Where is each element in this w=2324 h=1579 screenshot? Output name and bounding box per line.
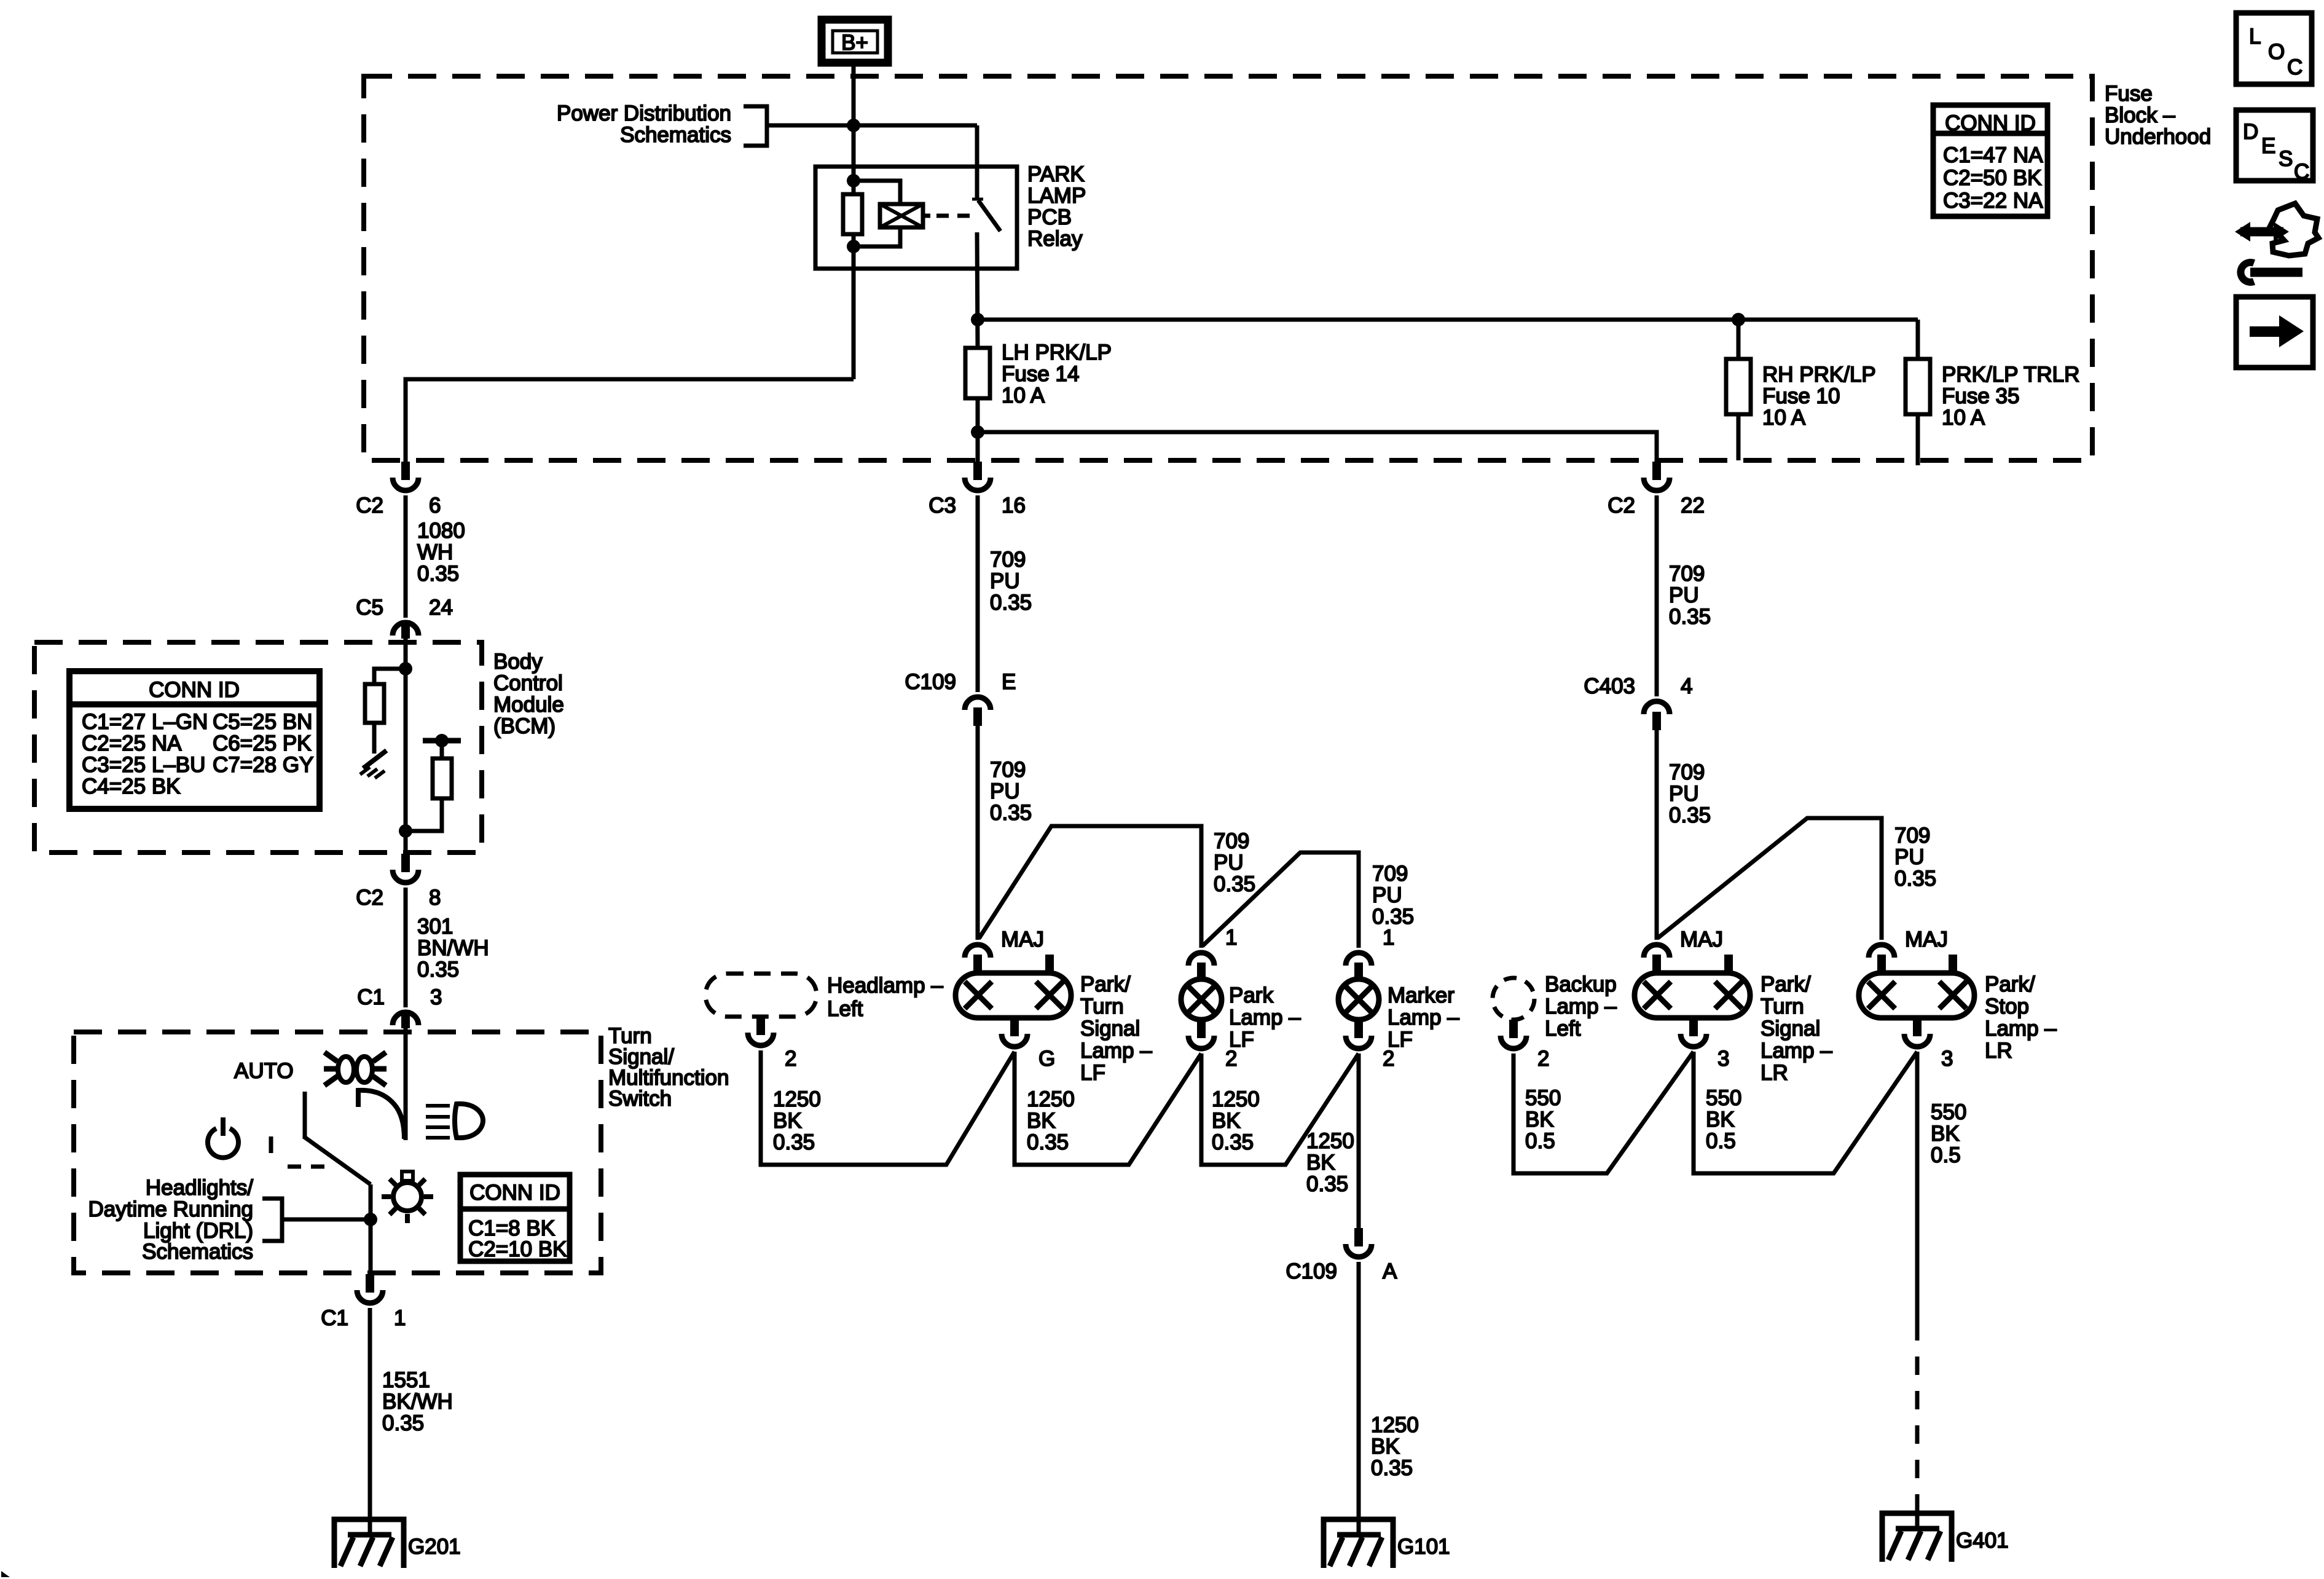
Headlamp Left (reference, dashed)	[705, 974, 817, 1017]
svg-text:0.35: 0.35	[1669, 605, 1711, 629]
node: BCM pullup tap	[399, 662, 412, 675]
svg-text:PU: PU	[990, 779, 1020, 803]
label: circuit 709 PU 0.35 (b)	[990, 758, 1032, 825]
svg-text:0.5: 0.5	[1931, 1143, 1961, 1167]
svg-text:CONN ID: CONN ID	[149, 678, 240, 702]
svg-text:Turn: Turn	[1761, 994, 1804, 1018]
connector MAJ (park/turn signal lamp LR)	[1644, 927, 1723, 973]
label: circuit 1250 BK 0.35 (e)	[1371, 1413, 1419, 1480]
resistor (BCM internal 2)	[433, 758, 452, 798]
svg-text:Fuse 10: Fuse 10	[1762, 384, 1840, 408]
wire: headlamp ground run	[761, 1050, 1015, 1165]
wire: TRLR fuse drop	[1916, 320, 1920, 359]
DESC legend box	[2236, 110, 2313, 184]
svg-text:709: 709	[1214, 829, 1249, 853]
svg-text:Switch: Switch	[608, 1087, 672, 1111]
Fuse Block - Underhood label	[2105, 82, 2211, 149]
svg-text:PU: PU	[1372, 883, 1402, 907]
svg-text:BK/WH: BK/WH	[382, 1390, 453, 1414]
ground G101	[1324, 1519, 1393, 1568]
label: circuit 1250 BK 0.35 (c)	[1212, 1087, 1260, 1154]
svg-text:CONN ID: CONN ID	[469, 1181, 560, 1205]
CONN ID table (BCM)	[69, 671, 320, 809]
svg-text:PU: PU	[1669, 583, 1699, 607]
svg-text:C6=25 PK: C6=25 PK	[213, 731, 312, 755]
park/turn signal lamp LR bulb	[1635, 955, 1750, 1018]
svg-text:WH: WH	[417, 540, 453, 564]
svg-text:C109: C109	[1286, 1259, 1337, 1283]
wire: coil branch top	[854, 181, 900, 204]
svg-text:C5: C5	[356, 596, 383, 620]
B+ battery feed box	[822, 20, 888, 63]
wire: branch to park/stop lamp LR	[1658, 818, 1882, 940]
Backup Lamp Left (reference, dashed)	[1493, 978, 1534, 1020]
switch linkage dashes	[288, 1165, 331, 1169]
service icon (arrows and wrench)	[2235, 203, 2318, 282]
wire: park/turn LR ground run	[1694, 1052, 1917, 1173]
svg-text:2: 2	[1383, 1047, 1394, 1071]
svg-text:Fuse: Fuse	[2105, 82, 2153, 106]
svg-text:L: L	[2249, 25, 2261, 49]
svg-text:MAJ: MAJ	[1680, 927, 1723, 951]
svg-text:1250: 1250	[1306, 1129, 1354, 1153]
svg-text:C3=25 L–BU: C3=25 L–BU	[82, 753, 205, 777]
svg-text:1: 1	[1225, 926, 1237, 950]
park/turn signal lamp LF label	[1080, 972, 1152, 1085]
connector: park lamp LF pin 2	[1188, 1020, 1237, 1071]
label: circuit 550 BK 0.5 (c)	[1931, 1100, 1966, 1167]
wire: C1-1 to G201	[368, 1308, 372, 1535]
connector C403 pin 4	[1584, 674, 1692, 730]
svg-text:PCB: PCB	[1027, 205, 1072, 229]
connector C109 pin E	[905, 670, 1016, 726]
svg-text:550: 550	[1525, 1086, 1561, 1110]
headlamp icon	[426, 1104, 483, 1138]
svg-text:10 A: 10 A	[1002, 384, 1045, 408]
svg-text:C3: C3	[928, 494, 956, 518]
svg-text:1250: 1250	[1212, 1087, 1260, 1111]
park lamp icon	[324, 1052, 387, 1085]
relay switch blade	[978, 200, 1000, 231]
wire: blade to C1-1	[369, 1184, 373, 1274]
svg-text:24: 24	[429, 596, 453, 620]
svg-text:0.35: 0.35	[1894, 867, 1936, 891]
svg-text:Relay: Relay	[1027, 227, 1083, 251]
svg-text:C7=28 GY: C7=28 GY	[213, 753, 313, 777]
svg-text:Daytime Running: Daytime Running	[88, 1197, 253, 1221]
svg-text:PARK: PARK	[1027, 162, 1085, 186]
wire: C2-22 to C403-4	[1655, 495, 1659, 696]
node: BCM sense tap	[399, 824, 412, 838]
svg-text:709: 709	[1372, 862, 1408, 886]
svg-text:Marker: Marker	[1388, 983, 1454, 1007]
svg-text:0.35: 0.35	[1306, 1172, 1348, 1196]
wire: fuse35 bottom	[1916, 414, 1920, 465]
node: BCM voltage rail	[423, 734, 461, 747]
svg-text:3: 3	[1941, 1047, 1953, 1071]
wire: branch to BCM resistor 1	[374, 669, 406, 684]
svg-text:Schematics: Schematics	[620, 123, 731, 147]
svg-text:PU: PU	[990, 569, 1020, 593]
svg-text:22: 22	[1681, 494, 1705, 518]
svg-text:Lamp –: Lamp –	[1545, 994, 1617, 1018]
Power Distribution Schematics label	[557, 101, 731, 147]
svg-text:709: 709	[990, 548, 1026, 572]
node: RH fuse junction	[1732, 313, 1745, 326]
label: circuit 709 PU 0.35 (g)	[1894, 824, 1936, 891]
wire: C109-E to park/turn lamp LF	[976, 726, 980, 940]
connector C5 pin 24 (BCM)	[356, 596, 453, 639]
svg-text:C1: C1	[357, 985, 385, 1009]
wire: C109-A to G101	[1357, 1262, 1361, 1535]
svg-text:Park: Park	[1229, 983, 1273, 1007]
svg-text:G: G	[1038, 1047, 1055, 1071]
svg-text:C109: C109	[905, 670, 956, 694]
svg-text:0.35: 0.35	[1212, 1130, 1254, 1154]
svg-text:C2=25 NA: C2=25 NA	[82, 731, 182, 755]
label: circuit 1250 BK 0.35 (d)	[1306, 1129, 1354, 1196]
svg-text:BN/WH: BN/WH	[417, 936, 489, 960]
svg-text:Block –: Block –	[2105, 103, 2175, 127]
svg-text:3: 3	[430, 985, 442, 1009]
label: circuit 301 BN/WH 0.35	[417, 915, 489, 982]
connector: backup lamp pin 2	[1501, 1020, 1549, 1071]
svg-text:709: 709	[990, 758, 1026, 782]
svg-text:1: 1	[394, 1306, 406, 1330]
connector C2 pin 6 (fuse block to BCM harness)	[356, 462, 441, 518]
svg-text:Lamp –: Lamp –	[1080, 1039, 1152, 1063]
relay switch contact tick	[972, 198, 983, 201]
svg-text:Lamp –: Lamp –	[1229, 1006, 1301, 1030]
svg-text:C3=22 NA: C3=22 NA	[1943, 189, 2043, 213]
svg-text:Control: Control	[493, 671, 563, 695]
wire: fuse14 output bus to C2-22	[978, 432, 1657, 462]
svg-text:0.35: 0.35	[417, 562, 459, 586]
svg-text:10 A: 10 A	[1762, 406, 1806, 430]
next page arrow box	[2236, 297, 2313, 368]
connector: park lamp LF pin 1	[1188, 926, 1237, 981]
connector: park/turn LR pin 3	[1681, 1018, 1729, 1071]
wire: relay output to fuse block edge	[406, 379, 854, 462]
svg-text:0.35: 0.35	[1027, 1130, 1069, 1154]
wire: B+ drop	[852, 62, 856, 194]
svg-text:Lamp –: Lamp –	[1985, 1017, 2057, 1041]
label: circuit 1250 BK 0.35 (a)	[773, 1087, 821, 1154]
connector: park/stop LR pin 3	[1904, 1018, 1953, 1071]
svg-text:RH PRK/LP: RH PRK/LP	[1762, 363, 1876, 387]
svg-text:0.35: 0.35	[990, 591, 1032, 615]
wire: marker lamp LF to C109-A	[1357, 1053, 1361, 1228]
connector C109 pin A	[1286, 1228, 1397, 1283]
svg-text:E: E	[2261, 134, 2275, 158]
svg-text:Turn: Turn	[1080, 994, 1124, 1018]
svg-text:709: 709	[1894, 824, 1930, 848]
svg-text:PU: PU	[1669, 782, 1699, 806]
svg-text:0.35: 0.35	[990, 801, 1032, 825]
power off icon	[208, 1117, 238, 1157]
svg-text:Power Distribution: Power Distribution	[557, 101, 731, 125]
svg-text:C1=47 NA: C1=47 NA	[1943, 143, 2043, 167]
label: circuit 709 PU 0.35 (e)	[1669, 562, 1711, 629]
wire: branch to BCM resistor 2	[406, 798, 442, 831]
PARK LAMP PCB relay box	[815, 167, 1017, 269]
label: circuit 709 PU 0.35 (c)	[1214, 829, 1255, 896]
switch wiper blade	[304, 1136, 371, 1184]
svg-text:C2=50 BK: C2=50 BK	[1943, 166, 2042, 190]
connector: park/turn LF pin G	[1002, 1018, 1055, 1071]
svg-text:CONN ID: CONN ID	[1945, 111, 2036, 135]
svg-text:D: D	[2243, 120, 2258, 144]
svg-text:LR: LR	[1761, 1061, 1788, 1085]
connector MAJ (park/stop lamp LR)	[1869, 927, 1948, 973]
connector: marker lamp LF pin 1	[1346, 926, 1394, 981]
wire: branch to marker lamp LF	[1203, 853, 1359, 948]
svg-text:AUTO: AUTO	[234, 1059, 294, 1083]
svg-text:Lamp –: Lamp –	[1388, 1006, 1459, 1030]
LOC legend box	[2236, 13, 2312, 84]
rotary travel arc	[358, 1090, 404, 1139]
wire: park lamp LF ground run	[1201, 1053, 1359, 1165]
PRK/LP TRLR Fuse 35	[1906, 359, 1930, 414]
node: relay coil bottom	[847, 240, 860, 253]
svg-text:G401: G401	[1956, 1529, 2009, 1553]
svg-text:Park/: Park/	[1761, 972, 1811, 996]
svg-text:PRK/LP TRLR: PRK/LP TRLR	[1942, 363, 2079, 387]
node: DRL tap	[364, 1213, 377, 1226]
wire: switch leg upper	[975, 125, 979, 198]
svg-text:C2: C2	[1608, 494, 1635, 518]
svg-text:C2: C2	[356, 886, 383, 910]
svg-text:BK: BK	[1306, 1151, 1335, 1175]
wire: G401 lead	[1915, 1503, 1920, 1529]
label: circuit 1250 BK 0.35 (b)	[1027, 1087, 1075, 1154]
ground G201	[334, 1519, 404, 1568]
svg-text:0.5: 0.5	[1706, 1129, 1736, 1153]
svg-text:Stop: Stop	[1985, 994, 2029, 1018]
svg-text:2: 2	[1537, 1047, 1549, 1071]
svg-text:C2: C2	[356, 494, 383, 518]
label: circuit 709 PU 0.35 (a)	[990, 548, 1032, 615]
resistor (BCM internal 1)	[365, 684, 384, 723]
svg-text:1250: 1250	[1371, 1413, 1419, 1437]
svg-text:0.35: 0.35	[773, 1130, 815, 1154]
svg-text:2: 2	[1225, 1047, 1237, 1071]
svg-text:G201: G201	[408, 1535, 461, 1559]
connector C1 pin 3 (multifunction switch)	[357, 985, 442, 1028]
wire: resistor 2 to voltage rail	[440, 741, 444, 758]
park/turn signal lamp LF bulb	[956, 955, 1071, 1018]
wire: BCM internal vertical	[404, 639, 408, 854]
wire: resistor to lower node	[852, 234, 856, 379]
DRL bracket	[262, 1199, 282, 1241]
node: fuse14 output junction	[971, 425, 984, 439]
svg-text:1: 1	[1383, 926, 1394, 950]
headlamp switch bulb icon	[382, 1171, 433, 1223]
node: fuse feed junction left	[971, 313, 984, 326]
svg-text:C403: C403	[1584, 674, 1635, 698]
svg-text:550: 550	[1706, 1086, 1741, 1110]
wire: bracket to relay switch leg	[767, 124, 977, 128]
svg-text:BK: BK	[1212, 1109, 1241, 1133]
svg-text:MAJ: MAJ	[1905, 927, 1948, 951]
svg-text:Left: Left	[1545, 1017, 1581, 1041]
svg-text:0.35: 0.35	[1214, 872, 1255, 896]
wire: C403-4 to park/turn lamp LR	[1655, 730, 1659, 940]
svg-text:Underhood: Underhood	[2105, 125, 2211, 149]
svg-text:16: 16	[1002, 494, 1026, 518]
svg-text:Backup: Backup	[1545, 972, 1617, 996]
svg-text:709: 709	[1669, 562, 1705, 586]
connector MAJ (park/turn signal lamp LF)	[965, 927, 1044, 973]
svg-text:8: 8	[429, 886, 441, 910]
label: circuit 550 BK 0.5 (a)	[1525, 1086, 1561, 1153]
wire: switch leg lower	[977, 232, 978, 350]
wire: dashed continuation to G401	[1915, 1322, 1920, 1503]
svg-text:Fuse 14: Fuse 14	[1002, 362, 1079, 386]
svg-text:C1: C1	[321, 1306, 348, 1330]
svg-text:O: O	[2268, 40, 2285, 64]
ground (BCM internal)	[360, 750, 387, 778]
svg-text:PU: PU	[1214, 851, 1244, 875]
svg-text:1080: 1080	[417, 519, 465, 543]
svg-text:Headlights/: Headlights/	[146, 1176, 253, 1200]
wire: backup lamp ground run	[1513, 1052, 1694, 1173]
wire: park/turn LF ground run	[1015, 1052, 1201, 1165]
park/stop lamp LR bulb	[1859, 955, 1974, 1018]
svg-text:3: 3	[1717, 1047, 1729, 1071]
svg-text:S: S	[2279, 147, 2293, 171]
wire: branch to park lamp LF	[979, 826, 1201, 948]
svg-text:2: 2	[785, 1047, 796, 1071]
svg-text:C2=10 BK: C2=10 BK	[468, 1237, 567, 1261]
svg-text:Park/: Park/	[1080, 972, 1131, 996]
svg-text:LAMP: LAMP	[1027, 184, 1086, 208]
fuse block underhood dashed box	[364, 76, 2092, 460]
svg-text:1250: 1250	[773, 1087, 821, 1111]
svg-text:Park/: Park/	[1985, 972, 2035, 996]
switch label	[608, 1024, 729, 1111]
svg-text:Schematics: Schematics	[142, 1240, 253, 1264]
CONN ID table (fuse block)	[1933, 105, 2047, 216]
svg-text:C5=25 BN: C5=25 BN	[213, 710, 312, 734]
connector: headlamp pin 2	[748, 1017, 796, 1071]
connector C2 pin 22 (fuse block output right)	[1608, 462, 1705, 518]
svg-text:C1=27 L–GN: C1=27 L–GN	[82, 710, 208, 734]
svg-text:BK: BK	[773, 1109, 802, 1133]
relay label	[1027, 162, 1086, 251]
park lamp LF label	[1229, 983, 1301, 1052]
svg-text:Lamp –: Lamp –	[1761, 1039, 1832, 1063]
svg-text:Left: Left	[827, 997, 863, 1021]
connector C3 pin 16 (fuse block output)	[928, 462, 1026, 518]
svg-text:0.35: 0.35	[1669, 803, 1711, 827]
svg-text:E: E	[1002, 670, 1016, 694]
CONN ID table (switch)	[460, 1175, 570, 1261]
svg-text:Module: Module	[493, 693, 564, 717]
svg-text:0.35: 0.35	[382, 1411, 424, 1435]
label: circuit 709 PU 0.35 (f)	[1669, 760, 1711, 827]
svg-text:B+: B+	[841, 31, 868, 55]
relay actuator dashed link	[923, 214, 972, 218]
wire: park/stop LR to G401 (solid)	[1915, 1052, 1920, 1322]
svg-text:Signal: Signal	[1761, 1017, 1820, 1041]
wire: fuse10 bottom	[1737, 414, 1741, 460]
svg-text:BK: BK	[1525, 1108, 1554, 1132]
svg-text:LH PRK/LP: LH PRK/LP	[1002, 341, 1112, 364]
wire: fuse feed bus	[978, 318, 1918, 322]
svg-text:709: 709	[1669, 760, 1705, 784]
svg-text:A: A	[1383, 1259, 1397, 1283]
svg-text:Signal: Signal	[1080, 1017, 1140, 1041]
label: circuit 550 BK 0.5 (b)	[1706, 1086, 1741, 1153]
svg-text:550: 550	[1931, 1100, 1966, 1124]
connector C2 pin 8 (BCM to switch harness)	[356, 854, 441, 910]
svg-text:0.35: 0.35	[417, 958, 459, 982]
svg-text:1250: 1250	[1027, 1087, 1075, 1111]
svg-text:4: 4	[1681, 674, 1692, 698]
svg-text:301: 301	[417, 915, 453, 939]
svg-text:LF: LF	[1080, 1061, 1105, 1085]
svg-text:G101: G101	[1397, 1535, 1450, 1559]
wire: DRL branch	[282, 1218, 371, 1222]
svg-text:C4=25 BK: C4=25 BK	[82, 774, 181, 798]
wire: switch feed contact	[404, 1028, 408, 1140]
wire: C3-16 to C109-E	[976, 495, 980, 692]
svg-text:LR: LR	[1985, 1039, 2012, 1063]
page mark	[1, 1571, 10, 1577]
svg-text:BK: BK	[1931, 1122, 1960, 1146]
park/turn signal lamp LR label	[1761, 972, 1832, 1085]
AUTO contact	[303, 1092, 307, 1138]
svg-text:BK: BK	[1371, 1435, 1400, 1459]
connector: marker lamp LF pin 2	[1346, 1020, 1394, 1071]
svg-text:MAJ: MAJ	[1001, 927, 1044, 951]
label: circuit 1551 BK/WH 0.35	[382, 1368, 453, 1435]
wire: resistor 1 to internal ground	[372, 723, 377, 754]
svg-text:Headlamp –: Headlamp –	[827, 974, 943, 998]
svg-text:C: C	[2294, 160, 2309, 184]
svg-text:(BCM): (BCM)	[493, 714, 555, 738]
label: circuit 1080 WH 0.35	[417, 519, 465, 586]
BCM label	[493, 650, 564, 738]
OFF contact tick	[269, 1136, 273, 1153]
label: circuit 709 PU 0.35 (d)	[1372, 862, 1414, 929]
marker lamp LF bulb	[1338, 979, 1379, 1020]
power distribution bracket	[744, 106, 767, 146]
Body Control Module dashed box	[34, 642, 482, 853]
marker lamp LF label	[1388, 983, 1459, 1052]
Turn Signal / Multifunction Switch dashed box	[74, 1032, 601, 1273]
svg-text:6: 6	[429, 494, 441, 518]
RH PRK/LP Fuse 10	[1726, 359, 1751, 414]
LH PRK/LP Fuse 14	[965, 348, 990, 398]
wire: RH fuse drop	[1737, 320, 1741, 359]
Headlights DRL label	[88, 1176, 254, 1264]
svg-text:BK: BK	[1706, 1108, 1735, 1132]
node: B+ feed junction	[847, 119, 860, 132]
wire: C2-6 to C5-24	[404, 495, 408, 618]
relay coil	[880, 204, 923, 227]
wire: fuse14 bottom	[976, 398, 980, 462]
svg-text:Body: Body	[493, 650, 543, 674]
svg-text:0.35: 0.35	[1371, 1456, 1413, 1480]
svg-text:C: C	[2287, 55, 2302, 79]
park lamp LF bulb	[1181, 979, 1222, 1020]
wire: coil branch bottom	[854, 227, 900, 246]
wire: C2-8 to C1-3	[404, 888, 408, 1007]
svg-text:0.5: 0.5	[1525, 1129, 1555, 1153]
svg-text:10 A: 10 A	[1942, 406, 1985, 430]
